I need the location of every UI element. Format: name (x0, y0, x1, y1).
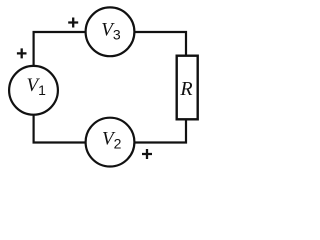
svg-text:R: R (179, 78, 192, 100)
